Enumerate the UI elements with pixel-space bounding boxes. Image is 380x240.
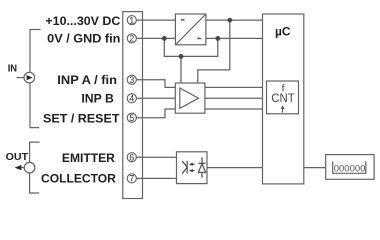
svg-text:7: 7	[129, 174, 134, 184]
svg-text:+10...30V DC: +10...30V DC	[45, 14, 120, 28]
svg-text:6: 6	[129, 152, 134, 162]
svg-text:3: 3	[129, 75, 134, 85]
svg-text:4: 4	[129, 94, 134, 104]
svg-text:IN: IN	[8, 64, 17, 75]
svg-text:COLLECTOR: COLLECTOR	[41, 172, 116, 186]
svg-text:2: 2	[129, 34, 134, 44]
svg-text:INP A / fin: INP A / fin	[57, 73, 117, 87]
svg-text:OUT: OUT	[6, 152, 29, 163]
svg-text:0V / GND fin: 0V / GND fin	[47, 32, 120, 46]
svg-text:µC: µC	[275, 25, 291, 39]
svg-text:5: 5	[129, 113, 134, 123]
svg-text:1: 1	[129, 15, 134, 25]
svg-text:EMITTER: EMITTER	[62, 151, 115, 165]
svg-text:INP B: INP B	[81, 92, 114, 106]
svg-text:CNT: CNT	[271, 93, 294, 105]
svg-text:SET / RESET: SET / RESET	[43, 111, 120, 125]
svg-text:000000: 000000	[334, 163, 366, 174]
svg-text:f: f	[282, 83, 285, 94]
